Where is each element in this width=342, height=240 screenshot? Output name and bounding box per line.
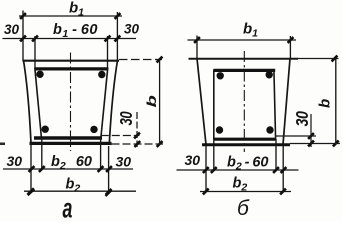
- stirrup bottom extension to right: [101, 135, 140, 137]
- rebar dot top-right right fig: [266, 71, 273, 78]
- dim row bottom2 right fig: [200, 191, 291, 193]
- stirrup top bar: [35, 67, 108, 70]
- rebar dot bottom-right: [90, 126, 97, 133]
- stirrup left side right fig: [213, 70, 215, 140]
- tick 30dim top: [134, 133, 140, 139]
- stirrup top bar right fig: [214, 69, 276, 72]
- tick rrow1 x276: [273, 167, 279, 173]
- svg-text:30: 30: [124, 22, 140, 37]
- rebar dot bottom-right right fig: [266, 126, 273, 133]
- tick rrow1 x205.8: [203, 167, 209, 173]
- tick b1 left: [20, 13, 26, 19]
- tick b-row1 x109: [106, 166, 112, 172]
- svg-text:30: 30: [7, 153, 23, 169]
- stirrup right side right fig: [274, 70, 276, 140]
- tick 30dim bottom: [134, 141, 140, 147]
- extension right corner up (right fig): [289, 36, 291, 59]
- tick b-dim top: [332, 56, 338, 62]
- dim b1 top line: [19, 15, 122, 17]
- stirrup left extension up: [34, 36, 36, 68]
- tick b-dim bottom: [333, 141, 339, 147]
- tick rb1 left: [194, 37, 200, 43]
- rebar dot top-left right fig: [217, 72, 224, 79]
- stirrup right extension up: [107, 36, 109, 68]
- 30 dim vertical right fig: [310, 114, 312, 147]
- extension left corner up (right fig): [196, 36, 198, 60]
- dim row bottom1 right fig: [177, 169, 299, 171]
- dim b1 line right fig: [188, 39, 297, 41]
- rebar dot top-left: [36, 71, 43, 78]
- outer top edge: [23, 60, 120, 62]
- top edge extension dashed to right: [119, 59, 162, 61]
- tick b-row1 x31.5: [29, 166, 35, 172]
- tick at c-dim top: [157, 57, 163, 63]
- stirrup bottom ext right fig: [276, 135, 316, 137]
- 30 dim vertical (right of left fig): [136, 112, 138, 147]
- svg-text:b2 60: b2 60: [51, 154, 92, 172]
- bottom edge extension (right fig): [290, 143, 340, 145]
- extension line left corner up: [22, 11, 24, 62]
- tick row2 x107.5: [105, 36, 111, 42]
- svg-text:b: b: [317, 99, 334, 108]
- bottom edge extension to right: [112, 143, 164, 145]
- rebar dot bottom-left: [42, 126, 49, 133]
- tick row2 x23: [20, 36, 26, 42]
- outer bottom edge right fig: [202, 143, 290, 146]
- tick at c-dim bottom: [157, 141, 163, 147]
- extension line right corner up: [116, 12, 118, 61]
- tick row2 x117.5: [115, 36, 121, 42]
- tick b2 right: [106, 189, 112, 195]
- tick b-row1 x100.5: [98, 166, 104, 172]
- tick at 30dim bottom right fig: [308, 141, 314, 147]
- tick b1 right: [115, 13, 121, 19]
- stirrup right side: [101, 68, 108, 139]
- center dash-dot line right fig: [243, 51, 245, 152]
- extension stirrup br down: [100, 138, 102, 171]
- outer left slant right fig: [197, 59, 206, 145]
- tick rb1 right: [288, 37, 294, 43]
- svg-text:30: 30: [4, 22, 20, 37]
- extension bl corner down right fig: [205, 145, 207, 193]
- extension stirrup bl down right fig: [213, 139, 215, 172]
- outer right slant right fig: [283, 59, 290, 145]
- dim row bottom2 line (b2): [24, 190, 136, 192]
- svg-text:b1 - 60: b1 - 60: [53, 22, 98, 40]
- svg-text:б: б: [237, 197, 250, 220]
- tick rb2 left: [203, 189, 209, 195]
- tick rb2 right: [280, 189, 286, 195]
- rebar dot bottom-left right fig: [216, 126, 223, 133]
- tick at 30dim top right fig: [308, 133, 314, 139]
- dim row bottom1 line: [3, 168, 133, 170]
- svg-text:30: 30: [294, 111, 313, 127]
- extension bottom-left corner down: [30, 145, 32, 193]
- outer top edge right fig: [189, 58, 299, 60]
- svg-text:30: 30: [117, 111, 136, 125]
- rebar dot top-right: [98, 71, 105, 78]
- outer bottom edge (thick): [30, 142, 112, 145]
- extension br corner down right fig: [282, 145, 284, 193]
- stirrup bottom bar: [34, 136, 102, 139]
- tick b-row1 x41.8: [39, 166, 45, 172]
- tick rrow1 x213.8: [211, 167, 217, 173]
- extension stirrup bl down: [41, 138, 43, 171]
- tick b2 left: [28, 188, 34, 194]
- small speck at left edge: [0, 143, 5, 146]
- svg-text:b1: b1: [243, 21, 258, 40]
- b dimension vertical: [335, 59, 337, 144]
- extension stirrup br down right fig: [275, 139, 277, 172]
- stirrup bottom bar right fig: [214, 138, 277, 141]
- outer right slant: [109, 61, 117, 144]
- svg-text:b2: b2: [233, 176, 248, 194]
- top edge extension dashed (right fig): [297, 58, 339, 60]
- extension bottom-right corner down: [108, 146, 110, 193]
- tick row2 x35: [32, 36, 38, 42]
- svg-text:а: а: [63, 193, 73, 221]
- stirrup left side: [35, 68, 42, 139]
- outer left slant: [24, 61, 32, 144]
- center dash-dot line: [70, 53, 72, 152]
- dim row2 line (30 / b1-60 / 30): [3, 38, 137, 40]
- svg-text:30: 30: [116, 154, 132, 170]
- svg-text:b: b: [144, 95, 159, 107]
- c dimension vertical line: [159, 60, 161, 145]
- svg-text:b2 - 60: b2 - 60: [227, 155, 268, 173]
- svg-text:b1: b1: [69, 0, 84, 19]
- tick rrow1 x283.5: [281, 167, 287, 173]
- svg-text:30: 30: [185, 152, 201, 168]
